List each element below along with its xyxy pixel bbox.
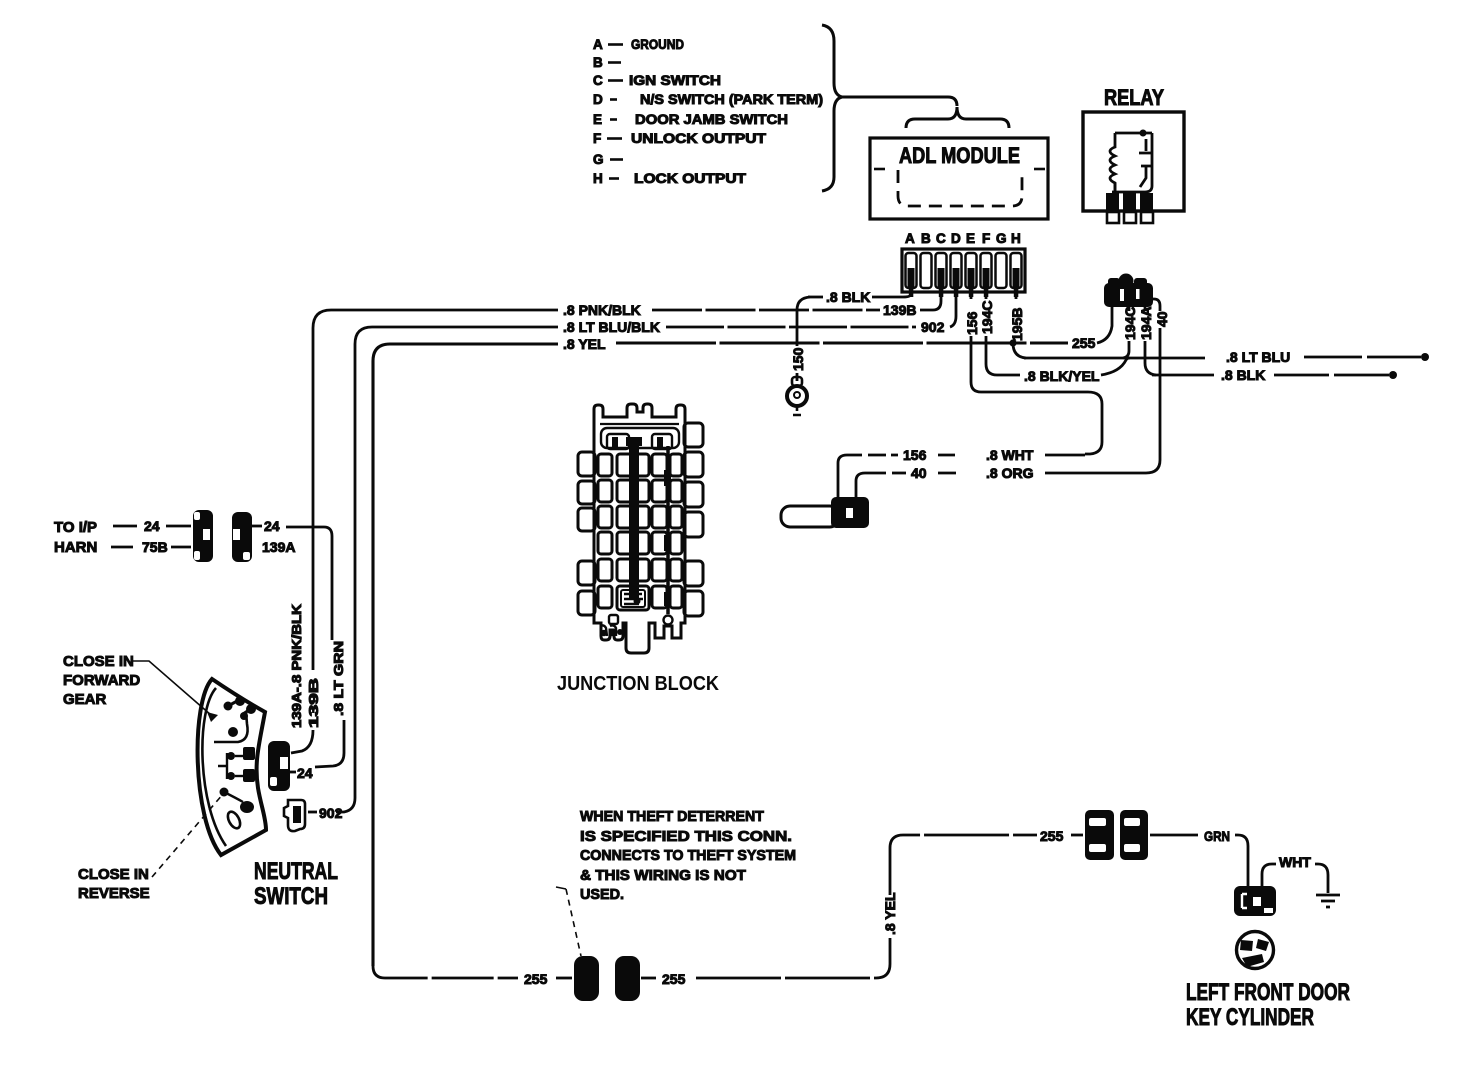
wire theft connector right <box>641 977 656 980</box>
pin G slot <box>996 253 1007 288</box>
svg-text:GROUND: GROUND <box>631 37 684 52</box>
svg-text:40: 40 <box>1154 311 1170 327</box>
wire 139A into switch connector <box>291 730 313 753</box>
relay fixed contact <box>1139 139 1153 153</box>
junction small circle <box>664 616 673 625</box>
ADL inner dash right <box>1034 168 1045 171</box>
wire LT BLU right <box>1304 356 1421 359</box>
relay pin 3 <box>1140 193 1153 210</box>
wire .8 PNK/BLK to 139B <box>652 309 880 312</box>
junction small square <box>609 615 618 624</box>
relay terminal 3 <box>1141 212 1153 223</box>
junction cells row 1 <box>598 454 612 476</box>
wire brace to module <box>841 97 957 106</box>
junction cells row 5 <box>598 559 612 581</box>
svg-text:HARN: HARN <box>54 539 97 556</box>
svg-text:.8 ORG: .8 ORG <box>986 465 1034 481</box>
wire 24 circuit lower <box>315 720 344 767</box>
pin C slot <box>936 253 947 288</box>
wire BLK/YEL up to LT BLU line <box>1101 358 1130 375</box>
relay coil <box>1110 133 1115 191</box>
junction right tab 6 <box>684 591 703 616</box>
wire dash 40 <box>892 472 906 475</box>
svg-text:156: 156 <box>964 311 980 335</box>
wire door connector to GRN <box>1150 834 1198 837</box>
wire pin F stub <box>985 294 988 299</box>
wire 194C to LT BLU line <box>1123 341 1129 358</box>
wire WHT right <box>1045 454 1085 457</box>
svg-text:.8 LT GRN: .8 LT GRN <box>332 641 346 716</box>
wire BLK right <box>1274 374 1389 377</box>
junction cells row 2 <box>598 480 612 502</box>
node LT BLU end dot <box>1421 353 1429 361</box>
wire 156 from connector <box>838 455 862 502</box>
switch contact middle pair 1 <box>227 752 235 760</box>
switch contact reverse <box>220 788 229 797</box>
wire LT BLU line <box>1024 357 1205 360</box>
wire dash 156 <box>868 454 898 457</box>
svg-text:194C: 194C <box>979 301 995 334</box>
wire 139B up to pin C <box>920 295 941 310</box>
svg-text:E: E <box>593 112 602 127</box>
wire .8 YEL horizontal <box>373 344 558 966</box>
junction right tab 3 <box>684 482 703 507</box>
svg-text:CLOSE IN: CLOSE IN <box>78 866 149 883</box>
svg-text:H: H <box>593 171 603 186</box>
junction left tab 1 <box>578 452 595 476</box>
wire 24 to connector <box>166 525 191 528</box>
svg-text:C: C <box>936 231 946 246</box>
svg-text:IS SPECIFIED THIS CONN.: IS SPECIFIED THIS CONN. <box>580 828 792 845</box>
pin F slot <box>981 253 992 288</box>
svg-text:LEFT FRONT DOOR: LEFT FRONT DOOR <box>1186 979 1350 1006</box>
wire to ring terminal <box>796 373 799 381</box>
wire 194C relay stub <box>1128 306 1131 311</box>
wire elbow down to G150 <box>797 297 810 346</box>
brace left curly <box>822 25 842 191</box>
junction left tab 5 <box>578 591 595 615</box>
svg-text:.8 BLK: .8 BLK <box>826 289 870 305</box>
svg-text:IGN SWITCH: IGN SWITCH <box>629 73 721 88</box>
wire dash between 156 and WHT <box>938 454 955 457</box>
svg-text:CLOSE IN: CLOSE IN <box>63 653 134 670</box>
svg-text:139A: 139A <box>262 539 295 555</box>
ADL inner dash left <box>874 168 885 171</box>
wire pin A to .8 BLK <box>872 294 911 297</box>
svg-text:H: H <box>1011 231 1021 246</box>
svg-text:902: 902 <box>319 805 343 821</box>
ground ring terminal G150 <box>792 377 802 386</box>
switch zero oval <box>225 810 242 831</box>
svg-text:.8 BLK: .8 BLK <box>1221 367 1265 383</box>
node relay top junction <box>1140 130 1147 137</box>
pin E slot <box>966 253 977 288</box>
wire 255 bottom left <box>373 966 518 978</box>
svg-text:139A-.8 PNK/BLK: 139A-.8 PNK/BLK <box>290 604 304 728</box>
wire 255 to door connector <box>1071 834 1083 837</box>
svg-text:24: 24 <box>297 765 313 781</box>
theft connector half B <box>615 956 640 1001</box>
ADL inner dashed bracket <box>898 170 1022 206</box>
relay connector blob <box>1119 274 1134 289</box>
leader theft note dashed <box>566 889 581 956</box>
wire 902 up to pin D <box>950 295 956 327</box>
neutral switch inner step <box>214 712 248 742</box>
inline connector body <box>781 506 839 527</box>
svg-text:.8 WHT: .8 WHT <box>986 447 1034 463</box>
neutral switch connector <box>268 741 290 791</box>
svg-text:REVERSE: REVERSE <box>78 885 150 902</box>
pin B slot <box>921 253 932 288</box>
svg-text:WHT: WHT <box>1279 854 1311 870</box>
svg-text:LOCK OUTPUT: LOCK OUTPUT <box>634 171 747 186</box>
svg-text:194C: 194C <box>1122 307 1138 340</box>
wire relay blob right arm to 40 <box>1150 299 1160 311</box>
svg-text:DOOR JAMB SWITCH: DOOR JAMB SWITCH <box>635 112 788 127</box>
ADL module box <box>870 138 1048 219</box>
wire dash HARN <box>111 546 133 549</box>
wire dash left of .8 BLK <box>808 296 823 299</box>
svg-text:194A: 194A <box>1138 307 1154 340</box>
svg-text:255: 255 <box>524 971 548 987</box>
svg-text:B: B <box>921 231 931 246</box>
wire pin H stub <box>1015 294 1018 299</box>
wire 902 down lower <box>336 798 355 812</box>
wire coil bottom <box>1114 183 1117 192</box>
brace over ADL module <box>906 107 1009 128</box>
inline connector black block <box>831 497 869 528</box>
switch contact dots top group <box>224 702 233 711</box>
svg-text:24: 24 <box>144 518 160 534</box>
wire .8 LT BLU/BLK horizontal <box>355 327 558 798</box>
wire WHT to ground <box>1315 864 1328 893</box>
svg-text:SWITCH: SWITCH <box>254 883 328 910</box>
wire 24 circuit down <box>286 527 332 640</box>
wire relay right branch <box>1112 133 1152 192</box>
junction inner tray <box>601 428 679 448</box>
svg-text:40: 40 <box>911 465 927 481</box>
wire connector to 24 <box>252 525 262 528</box>
svg-text:A: A <box>905 231 915 246</box>
svg-text:G: G <box>996 231 1007 246</box>
ground symbol <box>1316 895 1340 907</box>
junction block outer body <box>594 404 685 653</box>
connector 902 plug <box>284 800 305 831</box>
svg-text:RELAY: RELAY <box>1104 85 1164 110</box>
wire 75B to connector <box>171 546 191 549</box>
junction fuse cell <box>617 586 649 610</box>
wire relay top <box>1115 132 1152 135</box>
svg-text:G: G <box>593 152 604 167</box>
leader close in forward gear <box>133 661 211 715</box>
wire branch down to LT BLU line <box>1013 343 1026 358</box>
svg-text:GEAR: GEAR <box>63 691 107 708</box>
svg-text:N/S SWITCH (PARK TERM): N/S SWITCH (PARK TERM) <box>640 92 823 107</box>
theft connector half A <box>574 956 599 1001</box>
svg-text:139B: 139B <box>307 678 321 728</box>
relay pin 1 <box>1106 193 1119 210</box>
junction right bus line <box>666 446 670 614</box>
pin A slot <box>906 253 917 288</box>
wire 194A relay stub <box>1144 306 1147 311</box>
junction bottom bumps <box>600 625 616 636</box>
wire pin E stub <box>970 294 973 299</box>
junction right tab 5 <box>684 561 703 586</box>
switch contact lower blob <box>224 792 243 802</box>
wire 255 long horizontal <box>616 341 1068 344</box>
svg-text:255: 255 <box>1040 828 1064 844</box>
wire stub 24 to switch connector <box>288 771 296 774</box>
wire 194A to BLK line <box>1145 341 1156 375</box>
ADL connector body <box>902 249 1025 292</box>
svg-text:GRN: GRN <box>1204 828 1230 844</box>
neutral switch body outline <box>198 679 266 855</box>
svg-text:255: 255 <box>662 971 686 987</box>
wire .8 YEL riser upper <box>890 835 1037 895</box>
wire .8 LT BLU/BLK to 902 <box>666 326 916 329</box>
svg-text:.8 PNK/BLK: .8 PNK/BLK <box>563 302 641 318</box>
svg-text:WHEN THEFT DETERRENT: WHEN THEFT DETERRENT <box>580 808 764 825</box>
junction head bracket right <box>652 434 672 449</box>
svg-text:ADL MODULE: ADL MODULE <box>899 143 1020 168</box>
junction right tab 2 <box>684 452 703 477</box>
wire 255 to relay pin <box>1097 306 1112 343</box>
junction left tab 2 <box>578 481 595 504</box>
junction head bracket left <box>607 434 629 449</box>
relay terminal 2 <box>1124 212 1136 223</box>
door connector half A <box>1085 810 1114 860</box>
svg-text:USED.: USED. <box>580 886 624 903</box>
svg-text:.8 YEL: .8 YEL <box>563 336 606 352</box>
svg-text:156: 156 <box>903 447 927 463</box>
wire ORG right to 40 vertical <box>1045 328 1160 473</box>
wire GRN down to key switch <box>1235 835 1248 888</box>
relay moving contact <box>1140 166 1151 187</box>
wire 40 from connector <box>856 473 886 502</box>
door connector half B <box>1120 810 1148 860</box>
svg-text:A: A <box>593 37 603 52</box>
junction right tab 4 <box>684 512 703 537</box>
key symbol key <box>1242 954 1264 967</box>
wire dash TO I/P <box>113 525 137 528</box>
svg-text:150: 150 <box>790 347 806 371</box>
connector I/P harness half B <box>232 512 252 562</box>
svg-text:D: D <box>951 231 961 246</box>
wire 255 to .8 YEL riser <box>696 938 890 978</box>
wire 255 to theft connector <box>556 977 572 980</box>
svg-text:D: D <box>593 92 603 107</box>
svg-text:UNLOCK OUTPUT: UNLOCK OUTPUT <box>631 131 767 146</box>
wire BLK line <box>1152 374 1214 377</box>
svg-text:CONNECTS TO THEFT SYSTEM: CONNECTS TO THEFT SYSTEM <box>580 847 796 864</box>
svg-text:.8 BLK/YEL: .8 BLK/YEL <box>1024 368 1100 384</box>
svg-text:255: 255 <box>1072 335 1096 351</box>
svg-text:& THIS WIRING IS NOT: & THIS WIRING IS NOT <box>580 867 746 884</box>
svg-text:902: 902 <box>921 319 945 335</box>
svg-text:C: C <box>593 73 603 88</box>
svg-text:FORWARD: FORWARD <box>63 672 140 689</box>
wire pin E down <box>971 336 1102 454</box>
svg-text:E: E <box>966 231 975 246</box>
junction left tab 3 <box>578 508 595 531</box>
wire key switch to WHT <box>1262 864 1276 888</box>
svg-text:F: F <box>982 231 990 246</box>
connector I/P harness half A <box>193 510 213 562</box>
svg-text:TO I/P: TO I/P <box>54 519 97 536</box>
leader close in reverse dashed <box>152 794 223 877</box>
pin H slot <box>1011 253 1022 288</box>
pin D slot <box>951 253 962 288</box>
node junction 195B branch <box>1009 339 1016 346</box>
junction right tab 1 <box>684 423 703 447</box>
svg-text:139B: 139B <box>883 302 916 318</box>
switch contact middle pair 2 <box>227 772 235 780</box>
svg-text:JUNCTION BLOCK: JUNCTION BLOCK <box>557 673 720 695</box>
junction inner top rail <box>600 423 679 425</box>
key cylinder switch <box>1234 886 1276 916</box>
svg-text:195B: 195B <box>1009 308 1025 341</box>
junction cells row 4 <box>598 532 612 554</box>
junction left tab 4 <box>578 561 595 585</box>
junction bus bar <box>626 437 642 446</box>
relay pin 2 <box>1123 193 1136 210</box>
wire dash between 40 and ORG <box>938 472 956 475</box>
key symbol circle <box>1237 932 1274 969</box>
relay box <box>1083 112 1184 211</box>
svg-text:.8 LT BLU/BLK: .8 LT BLU/BLK <box>563 319 660 335</box>
junction cells row 6 <box>598 586 612 608</box>
wire .8 PNK/BLK horizontal <box>313 310 558 670</box>
node BLK end dot <box>1389 371 1397 379</box>
svg-text:B: B <box>593 55 603 70</box>
svg-text:F: F <box>593 131 601 146</box>
svg-text:24: 24 <box>264 518 280 534</box>
svg-text:NEUTRAL: NEUTRAL <box>254 858 338 885</box>
wire pin F down <box>986 336 1020 375</box>
neutral switch inner contour <box>202 688 226 846</box>
svg-text:.8 YEL: .8 YEL <box>882 892 898 935</box>
switch middle contact bracket <box>218 753 227 779</box>
junction cells row 3 <box>598 506 612 528</box>
wire stub 902 connector <box>308 811 317 814</box>
key symbol eyes <box>1240 940 1253 951</box>
switch arrow forward <box>207 712 218 722</box>
svg-text:75B: 75B <box>142 539 168 555</box>
relay terminal 1 <box>1107 212 1119 223</box>
svg-text:KEY CYLINDER: KEY CYLINDER <box>1186 1004 1314 1031</box>
svg-text:.8 LT BLU: .8 LT BLU <box>1226 349 1290 365</box>
